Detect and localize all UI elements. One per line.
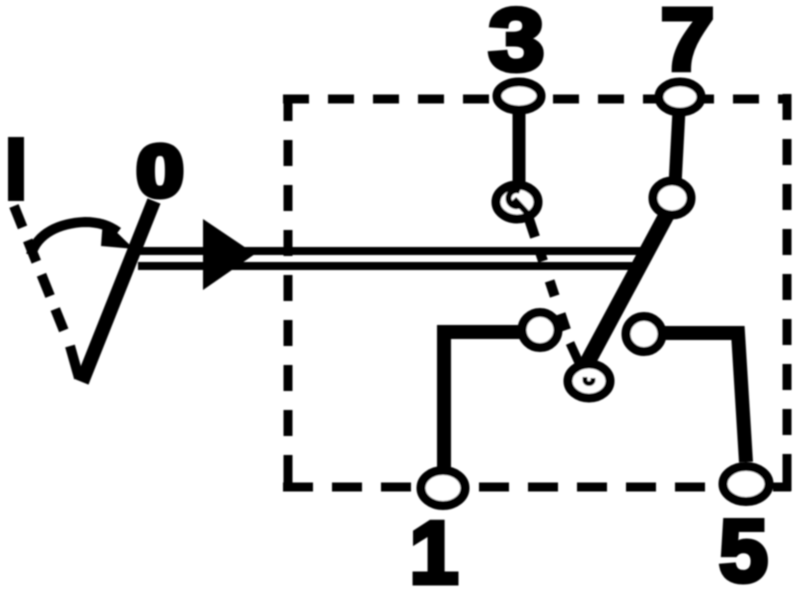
hook inside pole contact (585, 377, 593, 384)
terminal 3 (497, 82, 541, 110)
enclosure dashed box: bottom-right corner dash (783, 470, 792, 491)
switch blade (moving contact from contact 7 to pole) (586, 203, 673, 365)
lever position I (dashed actuator lever) (14, 206, 64, 331)
enclosure dashed box: top edge (283, 95, 787, 104)
left fixed contact (522, 313, 558, 348)
pole contact (568, 364, 610, 398)
rotation arc arrowhead (101, 219, 134, 249)
terminal 7 (659, 82, 701, 112)
linkage direction arrowhead (solid triangle) (203, 219, 255, 290)
rotation arc from I to 0 (31, 222, 118, 255)
lever tip arrow prong (70, 346, 79, 378)
curl inside contact 3 (508, 190, 528, 214)
wire: L-shaped wire from left contact to terminal 1 (444, 332, 523, 470)
lever position 0 (solid actuator lever) (82, 201, 154, 382)
blade arrowhead (570, 343, 581, 367)
enclosure dashed box: bottom edge (283, 483, 791, 492)
svg-text:7: 7 (661, 0, 715, 89)
svg-text:0: 0 (137, 132, 184, 212)
label I (8, 137, 24, 201)
svg-text:1: 1 (410, 503, 459, 589)
contact under terminal 7 (653, 181, 691, 215)
wire: stem from terminal 3 to contact (513, 108, 526, 190)
enclosure dashed box: bottom-left corner dash (284, 466, 293, 491)
terminal 1 (421, 471, 465, 506)
dashed mechanical link from actuator to blade (529, 219, 566, 330)
actuator linkage double line: top rail (138, 247, 641, 255)
terminal 5 (723, 467, 769, 502)
contact under terminal 3 (496, 185, 538, 219)
enclosure dashed box: left edge (284, 95, 293, 487)
wire: stem from terminal 7 to contact (675, 110, 679, 185)
svg-text:3: 3 (489, 0, 545, 89)
right fixed contact (626, 317, 662, 352)
enclosure dashed box: right edge (783, 94, 792, 491)
wire: L-shaped wire from right contact to terminal 5 (661, 333, 746, 462)
actuator linkage double line: bottom rail (138, 262, 637, 270)
svg-text:5: 5 (719, 501, 768, 589)
